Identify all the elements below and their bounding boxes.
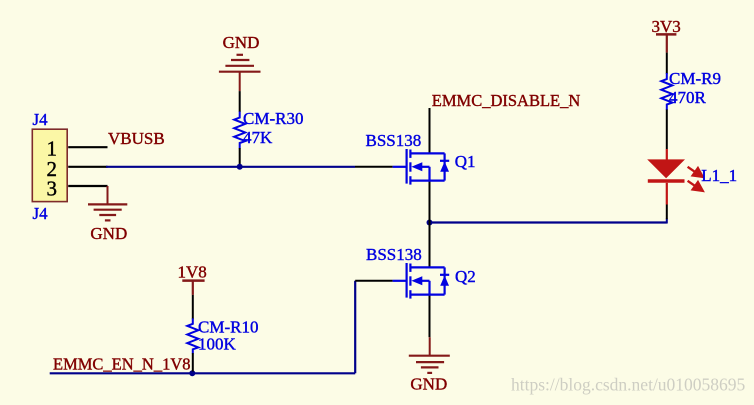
svg-text:EMMC_EN_N_1V8: EMMC_EN_N_1V8	[53, 354, 191, 373]
svg-text:Q2: Q2	[455, 267, 476, 286]
svg-text:3: 3	[47, 177, 58, 201]
svg-text:CM-R9: CM-R9	[669, 69, 721, 88]
svg-text:470R: 470R	[669, 88, 707, 107]
svg-text:GND: GND	[90, 224, 127, 243]
svg-text:EMMC_DISABLE_N: EMMC_DISABLE_N	[432, 91, 581, 110]
svg-text:100K: 100K	[198, 334, 237, 353]
svg-text:VBUSB: VBUSB	[108, 129, 165, 148]
svg-text:BSS138: BSS138	[366, 131, 422, 150]
svg-text:https://blog.csdn.net/u0100586: https://blog.csdn.net/u010058695	[511, 375, 746, 395]
svg-text:BSS138: BSS138	[366, 245, 422, 264]
svg-text:Q1: Q1	[455, 152, 476, 171]
svg-text:L1_1: L1_1	[701, 166, 737, 185]
svg-text:47K: 47K	[243, 128, 273, 147]
svg-text:GND: GND	[410, 375, 447, 394]
svg-text:CM-R30: CM-R30	[243, 109, 303, 128]
svg-text:J4: J4	[33, 204, 49, 223]
svg-text:J4: J4	[33, 110, 49, 129]
svg-text:GND: GND	[223, 33, 260, 52]
svg-text:1V8: 1V8	[178, 262, 207, 281]
